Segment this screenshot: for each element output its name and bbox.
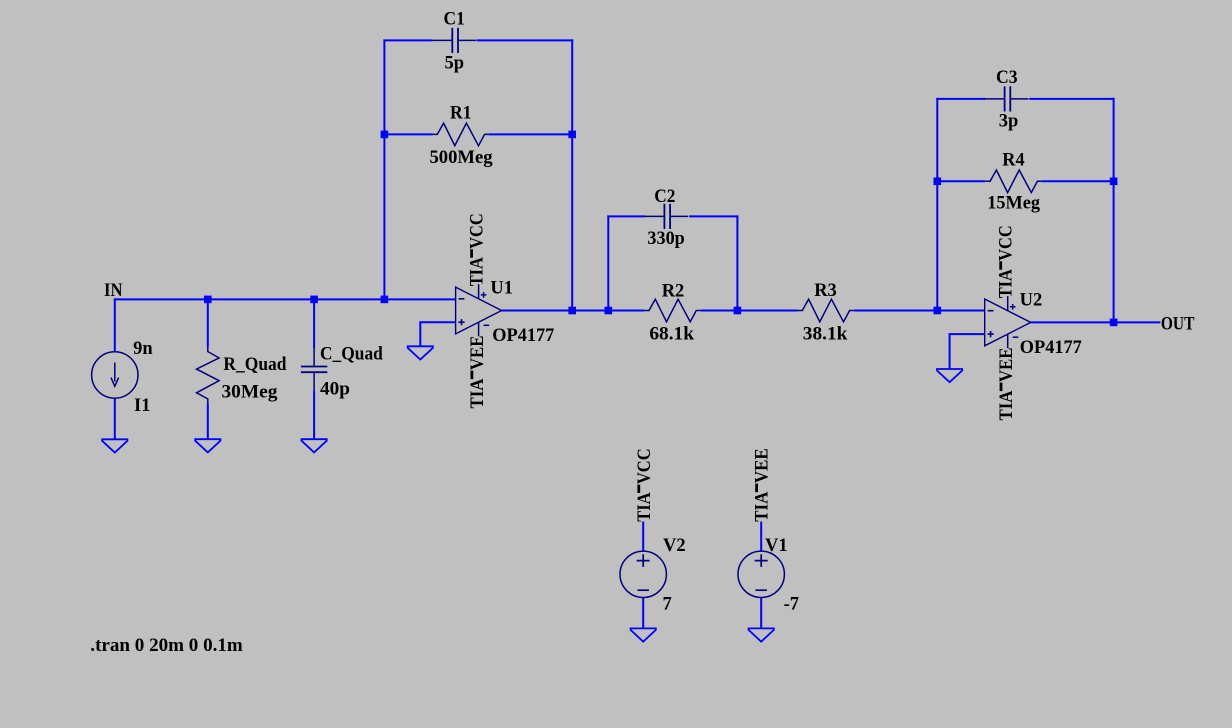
- wire U2 output: [1030, 321, 1114, 323]
- wire V2 bottom lead: [642, 598, 644, 629]
- svg-text:9n: 9n: [133, 339, 153, 359]
- wire C3 row right segment: [1029, 98, 1114, 100]
- wire U1 output row to R2: [501, 310, 644, 312]
- capacitor C2: [644, 204, 689, 229]
- wire C_Quad bottom lead to ground: [313, 390, 315, 439]
- resistor R1: [433, 123, 490, 146]
- wire R4 right lead: [1042, 180, 1114, 182]
- svg-text:OP4177: OP4177: [492, 326, 554, 346]
- svg-text:.tran 0 20m 0 0.1m: .tran 0 20m 0 0.1m: [90, 636, 243, 656]
- wire U1 + to ground: [419, 321, 421, 346]
- wire R_Quad bottom lead to ground: [207, 403, 209, 439]
- wire U2 feedback right vertical: [1113, 98, 1115, 323]
- wire R1 left lead: [384, 133, 432, 135]
- node junction R1 left: [381, 131, 389, 139]
- svg-text:U1: U1: [490, 279, 513, 299]
- svg-text:330p: 330p: [647, 229, 684, 249]
- wire left feedback vertical (IN node up to C1): [383, 39, 385, 299]
- wire IN row (node IN to U1 inverting input): [114, 298, 456, 300]
- svg-text:R4: R4: [1002, 150, 1024, 170]
- svg-text:R1: R1: [450, 103, 472, 123]
- op-amp U2: [985, 296, 1031, 348]
- wire C2 right vertical: [736, 215, 738, 310]
- wire C2 row right segment: [689, 215, 738, 217]
- wire into U2 inverting input: [936, 310, 984, 312]
- wire V1 top lead: [760, 522, 762, 552]
- node junction IN/R_Quad: [204, 296, 212, 304]
- op-amp U1: [456, 284, 502, 336]
- resistor R_Quad: [197, 347, 220, 404]
- svg-text:40p: 40p: [320, 379, 350, 399]
- node junction IN/C_Quad: [310, 296, 318, 304]
- svg-text:5p: 5p: [445, 53, 465, 73]
- node junction C2 left: [605, 307, 613, 315]
- wire R_Quad top lead: [207, 299, 209, 346]
- svg-text:R_Quad: R_Quad: [223, 355, 287, 375]
- wire R3 to U2 node: [854, 310, 938, 312]
- svg-text:I1: I1: [134, 396, 150, 416]
- svg-text:U2: U2: [1020, 291, 1043, 311]
- capacitor C3: [984, 86, 1029, 111]
- resistor R3: [798, 299, 855, 322]
- wire C2 left vertical: [607, 215, 609, 310]
- svg-text:68.1k: 68.1k: [649, 324, 694, 344]
- wire V1 bottom lead: [760, 598, 762, 629]
- node junction R4 right: [1110, 178, 1118, 186]
- wire R4 left lead: [937, 180, 985, 182]
- voltage source V2: [620, 551, 666, 597]
- wire C1 row right segment: [477, 39, 574, 41]
- svg-text:OUT: OUT: [1161, 314, 1195, 334]
- ground R_Quad: [194, 439, 221, 452]
- svg-text:15Meg: 15Meg: [987, 193, 1040, 213]
- wire U2 non-inverting input: [950, 333, 985, 335]
- ground U2 +input: [936, 369, 963, 382]
- svg-text:V1: V1: [765, 536, 788, 556]
- current source I1: [92, 352, 138, 398]
- ground V2: [630, 628, 657, 641]
- svg-text:IN: IN: [104, 281, 123, 301]
- wire C1 row left segment: [383, 39, 432, 41]
- ground U1 +input: [407, 346, 434, 359]
- svg-text:V2: V2: [663, 536, 686, 556]
- voltage source V1: [738, 551, 784, 597]
- wire C2 row left segment: [607, 215, 645, 217]
- ground C_Quad: [301, 439, 328, 452]
- svg-text:38.1k: 38.1k: [803, 324, 848, 344]
- node junction R1 right: [568, 131, 576, 139]
- svg-text:C2: C2: [654, 187, 675, 207]
- svg-text:-7: -7: [784, 594, 799, 614]
- svg-text:7: 7: [663, 594, 672, 614]
- wire right feedback vertical down to U1 output: [571, 39, 573, 311]
- node junction U1 output/feedback: [568, 307, 576, 315]
- wire R2 to R3: [701, 310, 798, 312]
- wire C_Quad top lead: [313, 299, 315, 348]
- wire I1 bottom lead to ground: [114, 398, 116, 439]
- capacitor C1: [432, 28, 477, 53]
- wire C3 row left segment: [936, 98, 985, 100]
- node junction OUT/feedback: [1110, 319, 1118, 327]
- wire OUT stub: [1114, 321, 1161, 323]
- svg-text:C_Quad: C_Quad: [320, 345, 383, 365]
- ground V1: [748, 628, 775, 641]
- svg-text:C1: C1: [444, 10, 465, 30]
- ground I1: [101, 439, 128, 452]
- svg-text:R2: R2: [662, 282, 685, 302]
- svg-text:30Meg: 30Meg: [222, 383, 279, 403]
- svg-text:R3: R3: [814, 281, 837, 301]
- svg-text:OP4177: OP4177: [1020, 338, 1082, 358]
- svg-text:500Meg: 500Meg: [430, 148, 494, 168]
- wire I1 top lead: [114, 298, 116, 351]
- svg-text:3p: 3p: [999, 111, 1019, 131]
- node junction C2 right: [734, 307, 742, 315]
- resistor R2: [644, 299, 701, 322]
- wire U1 non-inverting input: [420, 321, 455, 323]
- wire V2 top lead: [642, 522, 644, 552]
- wire R1 right lead: [489, 133, 572, 135]
- capacitor C_Quad: [301, 348, 327, 390]
- node junction IN/feedback: [381, 296, 389, 304]
- svg-text:C3: C3: [996, 68, 1018, 88]
- node junction U2 input/feedback: [934, 307, 942, 315]
- resistor R4: [985, 170, 1042, 193]
- node junction R4 left: [934, 178, 942, 186]
- wire U2 feedback left vertical: [936, 98, 938, 312]
- wire U2 + to ground: [949, 333, 951, 369]
